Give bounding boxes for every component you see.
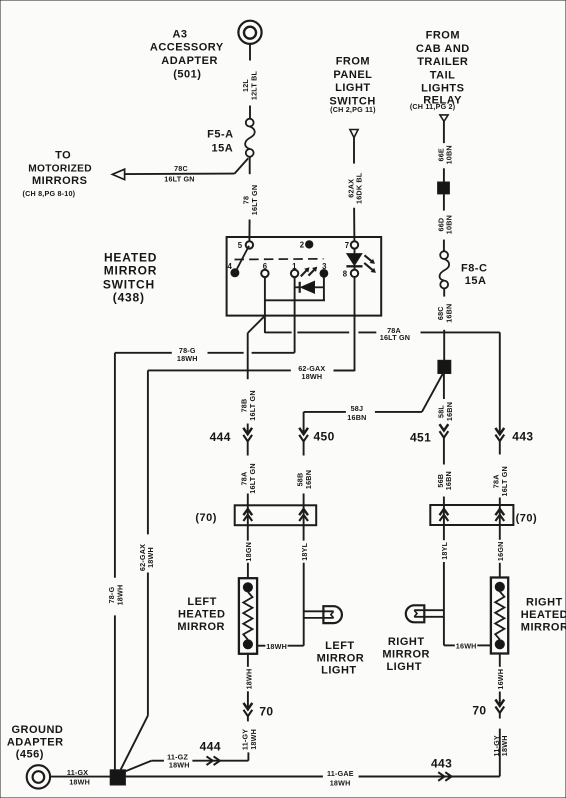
svg-text:18WH: 18WH [330, 778, 351, 787]
wire 62AX upper [353, 138, 355, 164]
wire 70 arrow right [495, 692, 504, 719]
svg-text:18GN: 18GN [244, 542, 253, 562]
svg-text:16BN: 16BN [304, 470, 313, 489]
svg-text:443: 443 [431, 757, 452, 771]
wire label 78 16LT GN [242, 185, 259, 215]
svg-text:TAIL: TAIL [430, 69, 456, 81]
wire 18WH below left mirror [247, 654, 249, 667]
wire label 11-GY 18WH (right) [492, 735, 509, 756]
node FROM PANEL LIGHT SWITCH label [329, 56, 376, 114]
diode light arrows [301, 267, 317, 276]
connector A3 accessory adapter (501) [238, 21, 261, 44]
wire 451 into connector 70 [443, 497, 445, 541]
connector (70) left [235, 505, 317, 525]
wire 11-GX 18WH [50, 768, 111, 787]
node TO MOTORIZED MIRRORS label [23, 149, 92, 198]
node 70 left label [259, 704, 273, 718]
connector pins right (70) [440, 509, 505, 521]
wire 443 off-page chevrons [438, 772, 451, 781]
svg-text:HEATED: HEATED [521, 609, 566, 621]
svg-text:(CH 11,PG 2): (CH 11,PG 2) [410, 102, 456, 111]
wire 62-GAX 18WH horizontal [148, 364, 355, 381]
svg-text:(456): (456) [16, 749, 44, 761]
svg-text:MIRROR: MIRROR [317, 653, 365, 665]
svg-text:10BN: 10BN [445, 215, 454, 234]
fuse F8-C 15A [440, 251, 488, 288]
wire pin1 down [294, 277, 296, 353]
node (CH 11,PG 2) label [410, 102, 456, 111]
svg-text:16DK BL: 16DK BL [355, 172, 364, 204]
svg-text:18WH: 18WH [500, 735, 509, 756]
connector splice 68C/58 junction [438, 360, 451, 373]
pin 4 [228, 262, 239, 277]
node LEFT MIRROR LIGHT label [317, 640, 365, 677]
svg-text:58J: 58J [351, 404, 364, 413]
svg-text:1: 1 [292, 262, 297, 271]
svg-text:(438): (438) [113, 291, 145, 305]
switch box heated mirror switch (438) [227, 237, 382, 316]
wire label 66E 10BN [436, 145, 453, 164]
wire 66E to connector [443, 168, 445, 182]
node 443 label [512, 430, 533, 444]
svg-text:MOTORIZED: MOTORIZED [28, 164, 92, 175]
wire 66D to fuse F8-C [443, 240, 445, 252]
svg-text:16BN: 16BN [445, 402, 454, 421]
wire label 11-GY 18WH (left) [241, 729, 258, 750]
off-page arrow to motorized mirrors [112, 169, 124, 179]
wire fuse F5-A output [249, 157, 251, 174]
off-page arrow from tail lights relay [440, 115, 448, 122]
wire 443 into connector 70 [499, 498, 501, 540]
svg-text:451: 451 [410, 431, 431, 445]
svg-text:450: 450 [313, 430, 334, 444]
pin 1 [291, 262, 298, 277]
svg-text:RIGHT: RIGHT [388, 636, 425, 648]
svg-text:MIRRORS: MIRRORS [32, 175, 87, 187]
svg-text:18WH: 18WH [169, 760, 190, 769]
svg-text:F5-A: F5-A [207, 128, 233, 140]
svg-text:16LT GN: 16LT GN [248, 463, 257, 493]
svg-text:CAB AND: CAB AND [416, 43, 470, 55]
svg-text:18YL: 18YL [440, 541, 449, 559]
wire pin8 down [354, 277, 356, 371]
pin 6 [261, 262, 268, 277]
svg-text:18WH: 18WH [249, 729, 258, 750]
node LEFT HEATED MIRROR label [177, 596, 225, 633]
connector splice 66E/66D [438, 182, 450, 194]
wire 62-GAX vertical lower [121, 573, 148, 770]
svg-text:18WH: 18WH [69, 777, 90, 786]
node 444 label [210, 430, 231, 444]
wire 18GN to left heated mirror [247, 563, 249, 579]
wire LED to pin8 [354, 266, 356, 270]
node (70) right label [516, 513, 538, 525]
wire 58J 16BN horizontal [304, 404, 422, 422]
svg-text:16LT GN: 16LT GN [500, 466, 509, 496]
svg-text:10BN: 10BN [445, 145, 454, 164]
node RIGHT MIRROR LIGHT label [382, 636, 430, 673]
wire 18WH link to mirror light [257, 642, 304, 651]
wire pin6-pin3 internal [265, 299, 325, 301]
svg-text:18WH: 18WH [115, 585, 124, 606]
wire 11-GY right vertical [499, 729, 501, 777]
ground splice junction [110, 770, 125, 785]
wire 70 arrow left [244, 691, 253, 721]
wire label 78A 16LT GN (444 branch) [240, 463, 257, 493]
wire 444 arrow [243, 424, 252, 456]
svg-text:(CH 8,PG 8-10): (CH 8,PG 8-10) [23, 189, 76, 198]
svg-text:MIRROR: MIRROR [382, 649, 430, 661]
wire 78-G vertical upper [114, 353, 116, 578]
svg-text:16BN: 16BN [444, 471, 453, 490]
svg-text:6: 6 [263, 262, 268, 271]
wire 68C upper [443, 289, 445, 297]
wire label 12L 12LT BL [241, 70, 258, 100]
svg-text:LEFT: LEFT [187, 596, 217, 608]
switch lever 4-5 [235, 246, 249, 273]
svg-text:TO: TO [55, 149, 71, 161]
svg-text:16LT GN: 16LT GN [250, 185, 259, 215]
svg-text:78C: 78C [174, 164, 188, 173]
wire 78-G vertical lower [114, 615, 116, 770]
wire 450 into connector 70 [303, 494, 305, 541]
svg-text:(501): (501) [173, 68, 201, 80]
wire label 18GN [244, 542, 253, 562]
svg-text:443: 443 [512, 430, 533, 444]
svg-text:GROUND: GROUND [11, 724, 63, 736]
svg-text:TRAILER: TRAILER [417, 56, 468, 68]
svg-text:18WH: 18WH [146, 547, 155, 568]
wire label 16WH (right return) [496, 669, 505, 690]
svg-text:18WH: 18WH [177, 354, 198, 363]
wire label 68C 16BN [436, 304, 453, 323]
wire 78A 16LT GN horizontal [265, 326, 500, 342]
wire label 18YL (left) [300, 542, 309, 560]
node FROM CAB AND TRAILER TAIL LIGHTS RELAY label [416, 29, 470, 106]
fuse F5-A 15A [207, 119, 255, 157]
node (70) left label [195, 512, 217, 524]
pin 2 [300, 241, 313, 250]
svg-text:MIRROR: MIRROR [521, 621, 566, 633]
svg-text:11-GAE: 11-GAE [327, 769, 354, 778]
node RIGHT HEATED MIRROR label [521, 597, 566, 634]
svg-text:HEATED: HEATED [178, 608, 225, 620]
wire 451 arrow [440, 424, 449, 464]
node 70 right label [472, 703, 486, 717]
pin 8 [343, 270, 358, 279]
wire label 62-GAX 18WH (vertical) [138, 544, 155, 571]
node 443 bottom label [431, 757, 452, 771]
off-page arrow from panel light switch [350, 130, 358, 138]
wire 66D upper [443, 194, 445, 211]
node HEATED MIRROR SWITCH (438) label [103, 250, 157, 304]
svg-text:MIRROR: MIRROR [104, 264, 157, 278]
LED indicator in switch [346, 254, 362, 267]
left mirror light lamp [304, 606, 342, 623]
svg-text:LIGHT: LIGHT [386, 661, 422, 673]
wire 78B vertical [247, 333, 249, 379]
wire 78C branch diagonal [235, 158, 249, 173]
wire 16GN to right heated mirror [499, 563, 501, 578]
wire 78B diagonal from switch [248, 316, 265, 333]
svg-text:FROM: FROM [426, 29, 460, 41]
svg-text:444: 444 [200, 739, 221, 753]
svg-text:16WH: 16WH [456, 641, 477, 650]
pin 3 [320, 262, 328, 277]
svg-text:16BN: 16BN [445, 304, 454, 323]
svg-text:8: 8 [343, 270, 348, 279]
wire 58J diagonal from splice [422, 374, 443, 412]
svg-text:(70): (70) [516, 513, 538, 525]
svg-text:16LT GN: 16LT GN [380, 333, 410, 342]
svg-text:70: 70 [472, 703, 486, 717]
svg-text:5: 5 [238, 241, 243, 250]
wire 62AX to switch pin 7 [353, 208, 355, 242]
svg-text:3: 3 [322, 262, 327, 271]
connector pins left (70) [243, 509, 308, 521]
wire label 58L 16BN [437, 402, 454, 421]
node 450 label [313, 430, 334, 444]
wire 12L to fuse F5-A [249, 106, 251, 119]
wire pin3 internal [323, 277, 325, 300]
svg-text:18WH: 18WH [266, 642, 287, 651]
svg-text:15A: 15A [465, 275, 487, 287]
svg-text:F8-C: F8-C [461, 263, 487, 275]
wire label 56B 16BN [436, 471, 453, 490]
wire 58L below splice [443, 374, 445, 400]
svg-text:HEATED: HEATED [104, 250, 157, 264]
svg-text:LIGHT: LIGHT [321, 665, 357, 677]
node A3 accessory adapter label [150, 28, 224, 80]
svg-text:7: 7 [345, 241, 349, 250]
svg-text:15A: 15A [211, 143, 233, 155]
wire 11-GAE 18WH bottom [125, 769, 500, 788]
connector ground adapter (456) [27, 765, 50, 788]
wire 444 into connector 70 [247, 494, 249, 541]
svg-text:2: 2 [300, 241, 305, 250]
LED light arrows [364, 255, 375, 272]
wire 78-G 18WH horizontal [115, 346, 295, 363]
wire 68C to connector [443, 330, 445, 361]
svg-text:SWITCH: SWITCH [103, 277, 155, 291]
wire 66E upper [443, 121, 445, 143]
diode D1 in switch [295, 281, 324, 293]
svg-text:A3: A3 [172, 28, 187, 40]
svg-text:PANEL: PANEL [333, 69, 372, 81]
pin 7 [345, 241, 358, 250]
wire label 66D 10BN [436, 215, 453, 234]
mechanical link dashed line [235, 258, 324, 261]
wire label 78-G 18WH (vertical) [107, 585, 124, 606]
svg-text:16LT GN: 16LT GN [248, 390, 257, 420]
wire 78 to switch pin 5 [248, 220, 250, 242]
wire 18YL to right mirror light [443, 562, 445, 645]
wire label 78A 16LT GN (443 branch) [492, 466, 509, 496]
wire label 16GN [496, 542, 505, 562]
svg-text:12LT BL: 12LT BL [250, 70, 259, 100]
wire 11-GY corner left [192, 752, 248, 760]
wire 443 arrow [495, 428, 504, 455]
svg-text:11-GX: 11-GX [67, 768, 88, 777]
svg-text:16WH: 16WH [496, 669, 505, 690]
svg-text:4: 4 [228, 262, 233, 271]
wire 18YL to left mirror light [303, 563, 305, 646]
svg-text:18WH: 18WH [244, 669, 253, 690]
wire label 18WH (left return) [244, 669, 253, 690]
wire 443 vertical [499, 332, 501, 434]
node 444 bottom label [200, 739, 221, 753]
svg-text:LEFT: LEFT [325, 640, 355, 652]
node GROUND ADAPTER label [7, 724, 64, 761]
svg-text:ACCESSORY: ACCESSORY [150, 42, 224, 54]
wire label 58B 16BN [296, 470, 313, 489]
wire label 78B 16LT GN [240, 390, 257, 420]
left heated mirror heater element [239, 578, 257, 654]
wire label 62AX 16DK BL [346, 172, 363, 204]
svg-text:LIGHT: LIGHT [335, 82, 371, 94]
wire 12L from adapter [249, 44, 251, 61]
wire 450 arrow [299, 412, 308, 456]
svg-text:16GN: 16GN [496, 542, 505, 562]
wire 78C 16LT GN to motorized mirrors [124, 164, 234, 183]
right heated mirror heater element [491, 578, 508, 654]
right mirror light lamp [406, 605, 444, 622]
svg-text:18YL: 18YL [300, 542, 309, 560]
svg-text:(70): (70) [195, 512, 217, 524]
svg-text:MIRROR: MIRROR [177, 621, 225, 633]
wire 11-GZ 18WH [125, 752, 190, 771]
wire 16WH below right mirror [499, 654, 501, 667]
pin 5 [238, 241, 253, 250]
svg-text:16BN: 16BN [347, 413, 366, 422]
svg-text:444: 444 [210, 430, 231, 444]
connector (70) right [430, 505, 513, 525]
wire 16WH link to right mirror [444, 641, 491, 650]
wire pin7 to LED [354, 248, 356, 253]
wire 444 off-page chevrons [207, 756, 220, 765]
wire 62-GAX vertical upper [147, 370, 149, 534]
svg-text:16LT GN: 16LT GN [164, 174, 194, 183]
svg-text:(CH 2,PG 11): (CH 2,PG 11) [330, 105, 376, 114]
svg-text:18WH: 18WH [302, 372, 323, 381]
node 451 label [410, 431, 431, 445]
svg-text:ADAPTER: ADAPTER [161, 55, 218, 67]
svg-text:FROM: FROM [336, 56, 370, 68]
wire label 18YL (right) [440, 541, 449, 559]
svg-text:LIGHTS: LIGHTS [421, 82, 464, 94]
svg-text:RIGHT: RIGHT [526, 597, 563, 609]
wire pin6 down [264, 277, 266, 333]
svg-text:70: 70 [259, 704, 273, 718]
svg-text:ADAPTER: ADAPTER [7, 736, 64, 748]
